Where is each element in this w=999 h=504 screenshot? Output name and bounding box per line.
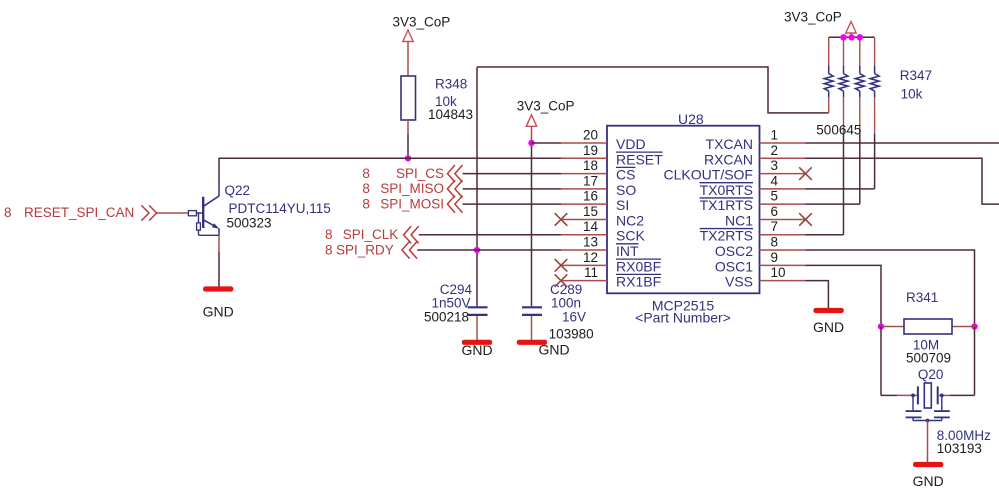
svg-text:SI: SI	[616, 197, 629, 213]
ground VSS	[813, 308, 843, 313]
pin stub 16 (SI)	[561, 203, 607, 205]
junction R347 bus 2	[848, 34, 854, 40]
wire SPI_MISO to U28	[463, 188, 561, 190]
no-connect pin 11 RX1BF	[555, 274, 568, 287]
svg-text:100n: 100n	[551, 296, 581, 311]
ground C289	[517, 340, 547, 345]
wire RESET_SPI_CAN to Q22 base	[157, 212, 189, 214]
svg-text:TX0RTS: TX0RTS	[700, 182, 753, 198]
resistor R347d top lead	[874, 37, 876, 66]
crystal right lead	[938, 394, 950, 396]
wire SPI_MOSI to U28	[463, 203, 561, 205]
pin stub 12 (RX0BF)	[561, 264, 607, 266]
power symbol 3V3_CoP (VDD)	[526, 115, 536, 127]
svg-text:U28: U28	[678, 111, 704, 127]
resistor R347b bottom lead	[843, 97, 845, 134]
no-connect pin 6 NC1	[799, 213, 812, 226]
connector chevron SPI_RDY 2	[410, 241, 418, 258]
ground Q20	[913, 462, 943, 467]
svg-text:104843: 104843	[428, 107, 473, 122]
svg-text:RESET_SPI_CAN: RESET_SPI_CAN	[24, 205, 134, 220]
svg-text:R341: R341	[906, 290, 938, 305]
svg-text:PDTC114YU,115: PDTC114YU,115	[229, 201, 331, 216]
wire R347b to TX2RTS	[843, 134, 845, 235]
junction R348/RESET net	[405, 155, 411, 161]
svg-text:Q22: Q22	[225, 183, 251, 198]
overline RX0BF	[616, 258, 661, 260]
svg-text:Q20: Q20	[918, 367, 944, 382]
pin stub 9 (OSC1)	[760, 264, 806, 266]
svg-text:1: 1	[771, 128, 779, 143]
wire INT net vertical to C294	[476, 67, 478, 306]
svg-text:20: 20	[583, 128, 598, 143]
wire crystal to OSC2	[950, 394, 975, 396]
svg-text:8: 8	[362, 196, 370, 211]
svg-text:SO: SO	[616, 182, 636, 198]
connector chevron SPI_MOSI 2	[455, 196, 463, 213]
pin stub 1 (TXCAN)	[760, 142, 806, 144]
resistor R341	[904, 319, 952, 334]
wire R348 to RESET net	[407, 134, 409, 158]
svg-text:GND: GND	[461, 342, 492, 358]
svg-text:OSC2: OSC2	[715, 243, 753, 259]
resistor R347d bottom lead	[874, 97, 876, 134]
svg-text:RX1BF: RX1BF	[616, 274, 661, 290]
svg-text:10: 10	[771, 265, 786, 280]
crystal case capacitor left	[911, 394, 915, 398]
wire R348 top lead	[407, 42, 409, 77]
svg-text:15: 15	[583, 204, 598, 219]
svg-text:500323: 500323	[227, 215, 272, 230]
svg-text:TX1RTS: TX1RTS	[700, 197, 753, 213]
resistor R347a zigzag	[824, 74, 833, 92]
svg-text:3V3_CoP: 3V3_CoP	[517, 99, 575, 114]
overline RX1BF	[616, 273, 661, 275]
wire R348 bottom lead	[407, 120, 409, 134]
wire OSC2 to R341	[806, 250, 975, 326]
svg-text:SPI_CLK: SPI_CLK	[343, 227, 399, 242]
connector chevron SPI_CS 1	[447, 165, 455, 182]
svg-text:6: 6	[771, 204, 779, 219]
svg-text:8: 8	[4, 205, 12, 220]
pin stub 19 (RESET)	[561, 157, 607, 159]
wire OSC1 to R341	[806, 265, 882, 326]
resistor R347c bottom lead	[859, 97, 861, 134]
pin stub 17 (SO)	[561, 188, 607, 190]
svg-text:19: 19	[583, 143, 598, 158]
svg-text:GND: GND	[203, 304, 234, 320]
capacitor C294	[468, 306, 488, 308]
svg-text:103980: 103980	[549, 327, 594, 342]
svg-text:3V3_CoP: 3V3_CoP	[393, 15, 451, 30]
wire Q22 emitter to GND	[218, 252, 220, 287]
wire SPI_CLK to U28	[419, 234, 561, 236]
svg-text:5: 5	[771, 189, 779, 204]
svg-text:INT: INT	[616, 243, 639, 259]
svg-text:SPI_MISO: SPI_MISO	[380, 181, 444, 196]
connector chevron RESET_SPI_CAN 2	[149, 205, 157, 220]
overline TX1RTS	[700, 197, 753, 199]
no-connect pin 12 RX0BF	[555, 259, 568, 272]
connector chevron SPI_CS 2	[455, 165, 463, 182]
pin stub 6 (NC1)	[760, 218, 806, 220]
wire 3V3 to VDD node	[531, 126, 533, 143]
svg-text:2: 2	[771, 143, 779, 158]
svg-text:18: 18	[583, 158, 598, 173]
power symbol 3V3_CoP (R348)	[403, 30, 413, 42]
svg-text:500709: 500709	[906, 351, 951, 366]
resistor R341 left lead	[881, 326, 904, 328]
overline RESET	[616, 151, 663, 153]
wire TX0RTS	[806, 188, 875, 190]
overline TX2RTS	[700, 228, 753, 230]
pin stub 5 (TX1RTS)	[760, 203, 806, 205]
svg-text:RX0BF: RX0BF	[616, 258, 661, 274]
connector chevron SPI_MISO 2	[455, 180, 463, 197]
junction R341 left	[878, 323, 884, 329]
svg-text:1n50V: 1n50V	[431, 296, 470, 311]
svg-text:17: 17	[583, 173, 598, 188]
pin stub 10 (VSS)	[760, 280, 806, 282]
wire INT net to R347a	[477, 67, 829, 113]
wire R347d to TX0RTS	[874, 134, 876, 189]
svg-text:8: 8	[362, 166, 370, 181]
pin stub 20 (VDD)	[561, 142, 607, 144]
pin stub 13 (INT)	[561, 249, 607, 251]
connector chevron SPI_MISO 1	[447, 180, 455, 197]
junction VDD/3V3	[528, 140, 534, 146]
svg-text:8: 8	[771, 235, 779, 250]
junction R347 bus 1	[840, 34, 846, 40]
pin stub 2 (RXCAN)	[760, 157, 806, 159]
junction R347 bus 3	[857, 34, 863, 40]
svg-text:GND: GND	[538, 342, 569, 358]
svg-text:SPI_CS: SPI_CS	[396, 166, 444, 181]
svg-text:3V3_CoP: 3V3_CoP	[784, 10, 842, 25]
resistor R347c zigzag	[855, 74, 864, 92]
wire SPI_CS to U28	[463, 173, 561, 175]
wire 3V3 to R347 bus	[850, 33, 852, 37]
resistor R347a bottom lead	[828, 97, 830, 113]
wire OSC1 down to crystal	[880, 327, 882, 396]
svg-text:GND: GND	[813, 319, 844, 335]
wire SPI_RDY to U28	[417, 249, 561, 251]
overline INT	[616, 243, 639, 245]
no-connect pin 15 NC2	[555, 213, 568, 226]
svg-text:8: 8	[325, 242, 333, 257]
resistor R347d zigzag	[870, 74, 879, 92]
resistor R347a top lead	[828, 37, 830, 66]
junction SPI_RDY/INT net	[474, 247, 480, 253]
svg-text:103193: 103193	[937, 441, 982, 456]
svg-text:500218: 500218	[424, 310, 469, 325]
wire VDD node down to C289	[531, 143, 533, 306]
svg-text:<Part Number>: <Part Number>	[635, 310, 731, 326]
svg-text:SCK: SCK	[616, 228, 645, 244]
svg-text:CLKOUT/SOF: CLKOUT/SOF	[664, 167, 753, 183]
overline TX0RTS	[700, 182, 753, 184]
pin stub 8 (OSC2)	[760, 249, 806, 251]
svg-text:R347: R347	[900, 68, 932, 83]
svg-text:7: 7	[771, 219, 779, 234]
svg-text:12: 12	[583, 250, 598, 265]
overline CS	[616, 166, 635, 168]
svg-text:8: 8	[325, 227, 333, 242]
wire TX1RTS	[806, 203, 860, 205]
wire C294 to GND	[476, 316, 478, 340]
svg-text:500645: 500645	[816, 123, 861, 138]
svg-text:9: 9	[771, 250, 779, 265]
pin stub 14 (SCK)	[561, 234, 607, 236]
resistor R347c top lead	[859, 37, 861, 66]
svg-text:NC2: NC2	[616, 212, 644, 228]
svg-text:TXCAN: TXCAN	[706, 136, 753, 152]
crystal case capacitor right	[940, 394, 944, 398]
svg-text:8: 8	[362, 181, 370, 196]
svg-text:4: 4	[771, 173, 779, 188]
svg-text:14: 14	[583, 219, 599, 234]
resistor R347b top lead	[843, 37, 845, 66]
connector chevron SPI_CLK 1	[404, 226, 412, 243]
transistor Q22	[188, 211, 196, 216]
svg-text:SPI_MOSI: SPI_MOSI	[380, 196, 444, 211]
connector chevron SPI_CLK 2	[411, 226, 419, 243]
resistor R341 right lead	[952, 326, 975, 328]
pin stub 3 (CLKOUT/SOF)	[760, 173, 806, 175]
wire C289 to GND	[531, 316, 533, 340]
svg-text:OSC1: OSC1	[715, 258, 753, 274]
wire crystal caps common	[913, 420, 942, 422]
pin stub 4 (TX0RTS)	[760, 188, 806, 190]
svg-text:VSS: VSS	[725, 274, 753, 290]
no-connect pin 3 CLKOUT/SOF	[799, 167, 812, 180]
junction R341 right	[971, 323, 977, 329]
svg-text:R348: R348	[435, 77, 467, 92]
pin stub 18 (CS)	[561, 173, 607, 175]
connector chevron RESET_SPI_CAN 1	[141, 205, 149, 220]
svg-text:NC1: NC1	[725, 212, 753, 228]
junction crystal caps	[926, 419, 930, 423]
svg-text:13: 13	[583, 235, 598, 250]
ground Q22	[203, 286, 233, 291]
svg-text:VDD: VDD	[616, 136, 646, 152]
wire crystal to GND	[927, 421, 929, 463]
op-amp U1 - IC U28 body	[607, 126, 760, 294]
wire RESET net	[219, 157, 562, 159]
svg-text:11: 11	[584, 265, 598, 280]
pin stub 15 (NC2)	[561, 218, 607, 220]
wire RXCAN to edge	[806, 158, 999, 204]
pin stub 11 (RX1BF)	[561, 280, 607, 282]
svg-text:GND: GND	[913, 473, 944, 489]
svg-text:10k: 10k	[901, 87, 923, 102]
wire TXCAN to edge	[806, 142, 999, 144]
svg-text:RXCAN: RXCAN	[704, 151, 753, 167]
wire Q22 emitter stub	[218, 235, 220, 252]
power symbol 3V3_CoP (R347)	[846, 22, 856, 34]
svg-text:16V: 16V	[562, 310, 586, 325]
crystal Q20	[917, 386, 919, 404]
crystal left lead	[897, 394, 918, 396]
svg-text:3: 3	[771, 158, 779, 173]
connector chevron SPI_MOSI 1	[447, 196, 455, 213]
svg-text:16: 16	[583, 189, 598, 204]
wire R347 top bus	[829, 36, 875, 38]
wire VSS to GND	[806, 281, 829, 309]
wire VDD node to pin 20	[532, 142, 562, 144]
svg-text:TX2RTS: TX2RTS	[700, 228, 753, 244]
resistor R347b zigzag	[839, 74, 848, 92]
ground C294	[462, 340, 492, 345]
pin stub 7 (TX2RTS)	[760, 234, 806, 236]
svg-text:RESET: RESET	[616, 151, 663, 167]
capacitor C289	[522, 306, 542, 308]
resistor R348	[401, 76, 416, 120]
svg-text:CS: CS	[616, 167, 635, 183]
wire TX2RTS	[806, 234, 844, 236]
connector chevron SPI_RDY 1	[402, 241, 410, 258]
svg-text:SPI_RDY: SPI_RDY	[336, 242, 394, 257]
wire R347c to TX1RTS	[859, 134, 861, 204]
